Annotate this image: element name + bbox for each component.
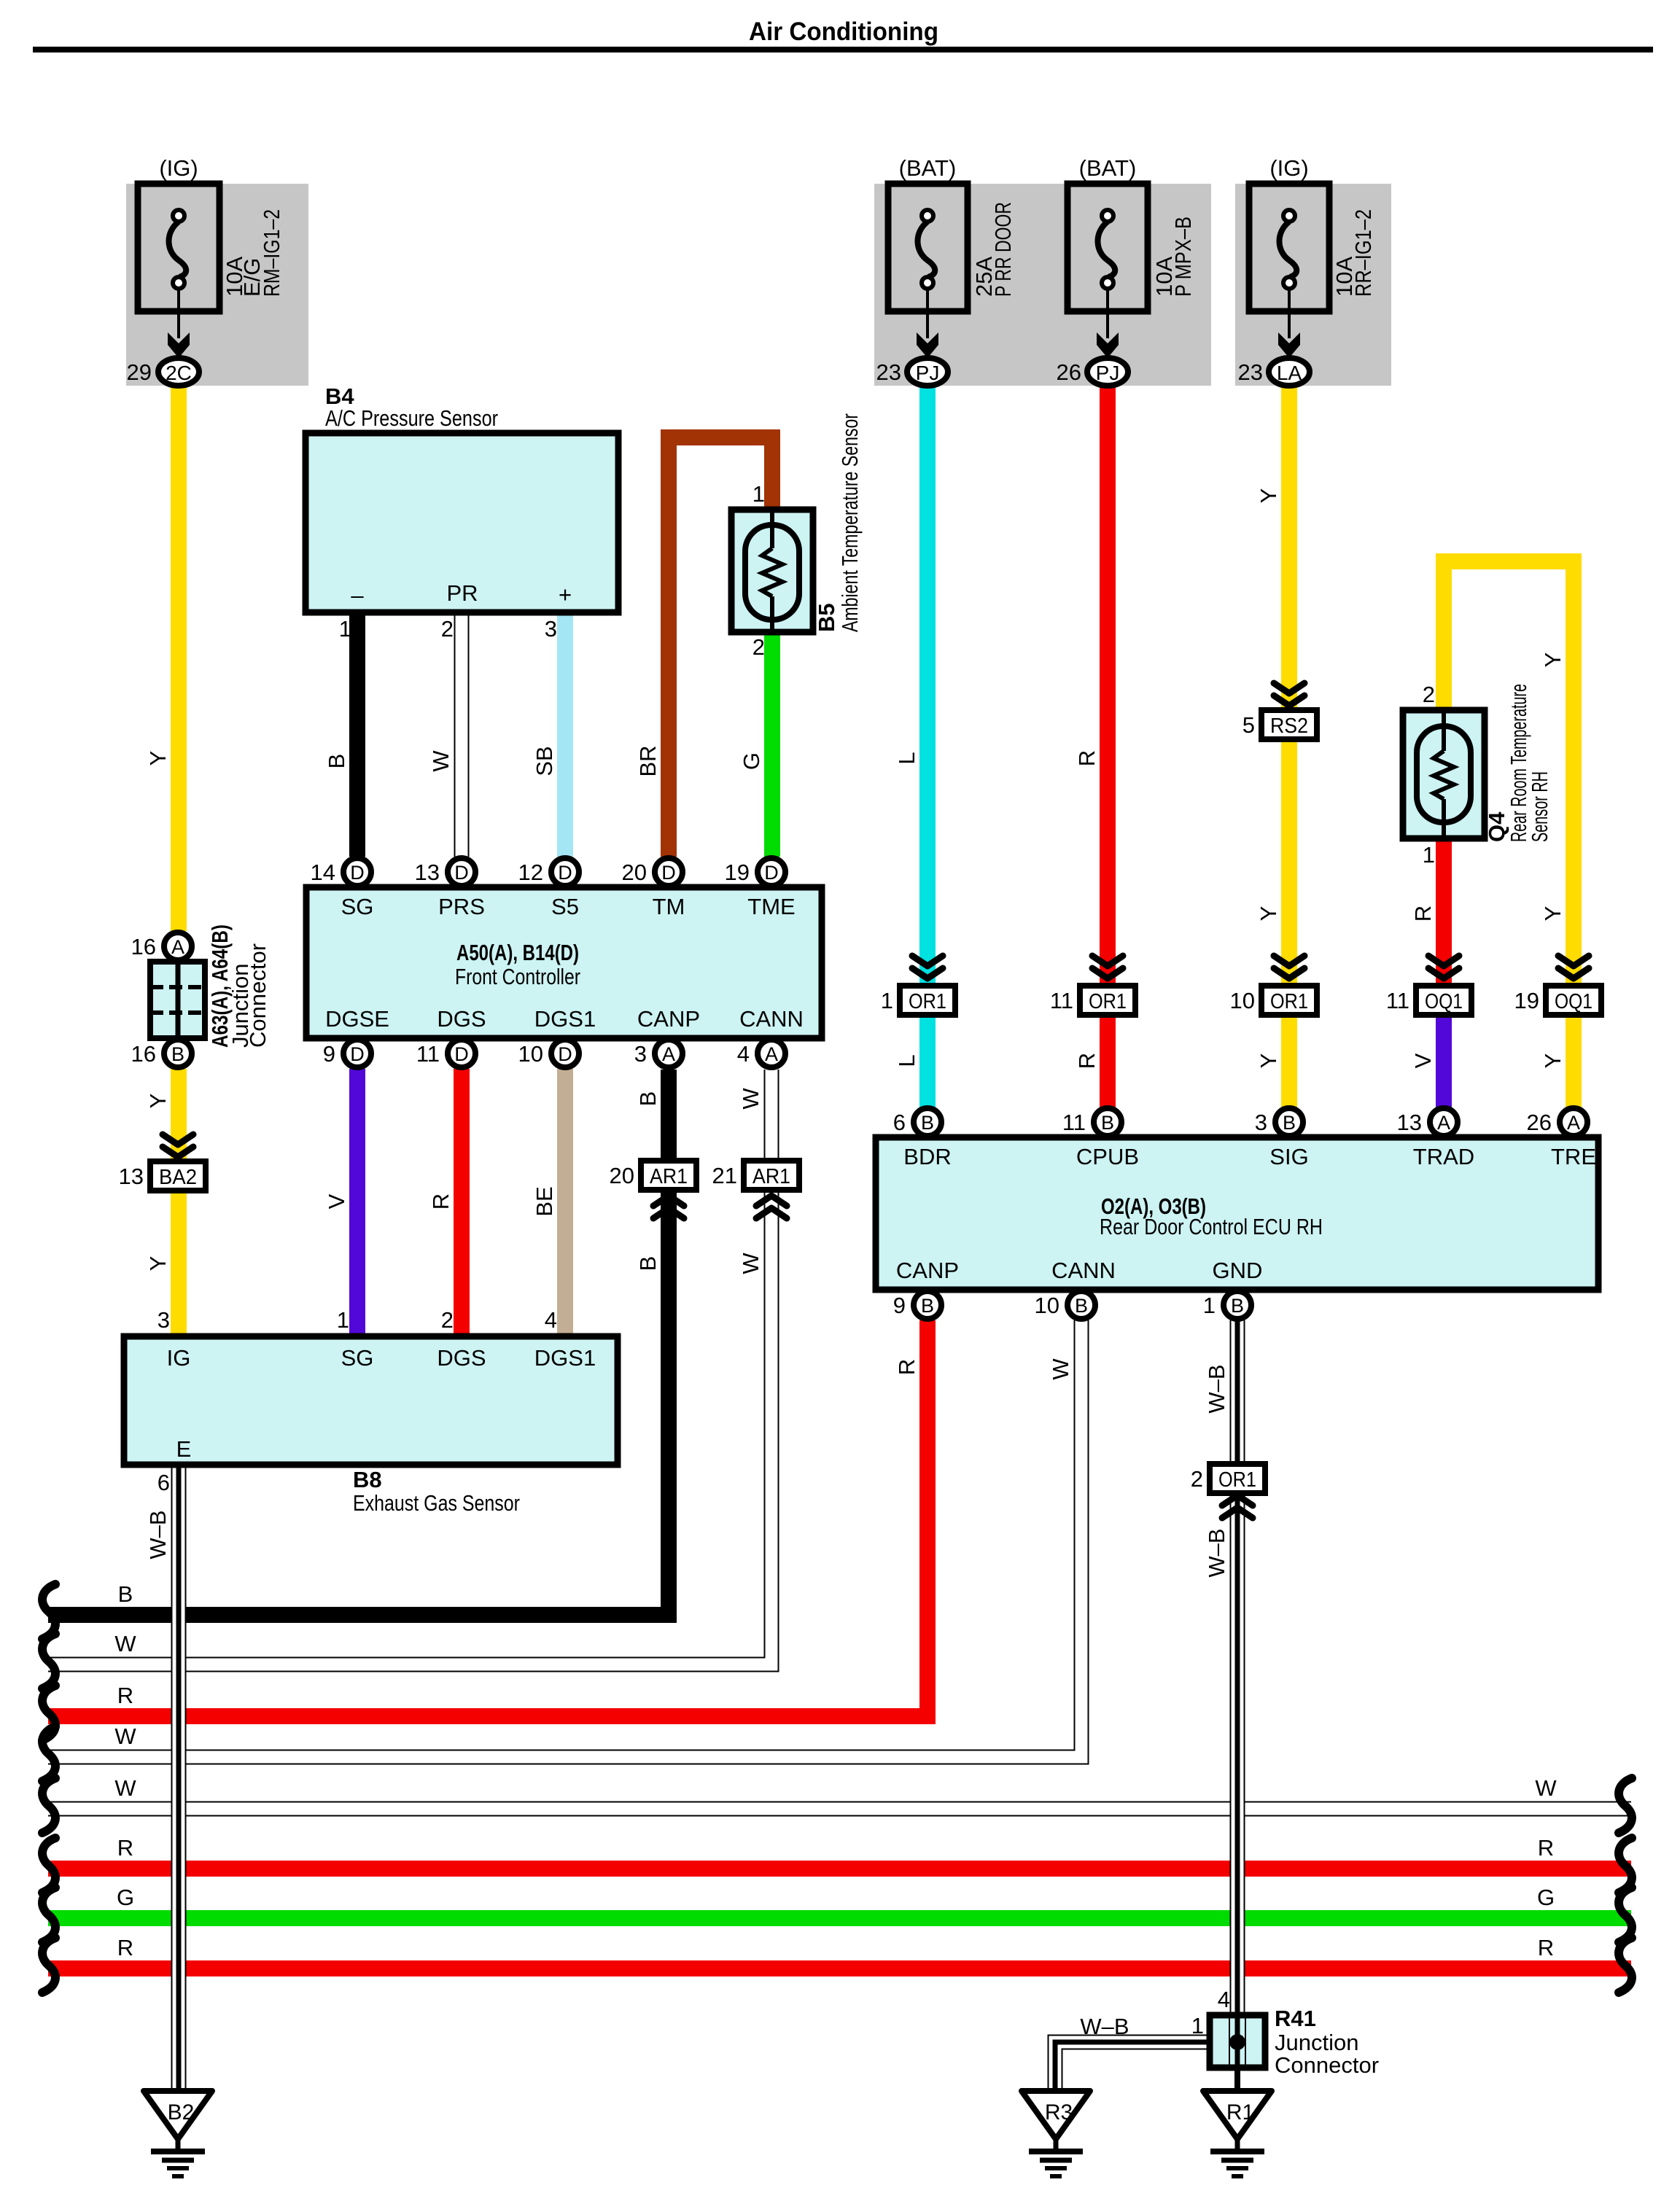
svg-text:P RR DOOR: P RR DOOR [990, 202, 1016, 297]
svg-text:16: 16 [131, 1041, 156, 1067]
svg-text:PRS: PRS [438, 894, 485, 919]
pin 11 B CPUB [1094, 1108, 1121, 1136]
connector OR1 pin 10 [1261, 986, 1317, 1015]
svg-text:26: 26 [1527, 1110, 1552, 1135]
pin 9 B CANP [914, 1291, 941, 1319]
bus break curls left [42, 1584, 55, 1639]
svg-text:Rear Door Control ECU RH: Rear Door Control ECU RH [1100, 1214, 1323, 1239]
svg-text:D: D [350, 862, 365, 884]
node R41 junction dot [1229, 2034, 1245, 2050]
component O2(A) O3(B) Rear Door Control ECU RH [876, 1137, 1598, 1290]
svg-text:B: B [921, 1112, 934, 1134]
svg-text:R: R [117, 1835, 133, 1861]
wire R bus full width lower [48, 1960, 1631, 1976]
svg-text:R: R [1410, 905, 1436, 922]
connector AR1 pin 20 chevrons [653, 1196, 684, 1206]
svg-text:R: R [1074, 1053, 1100, 1069]
svg-text:R: R [894, 1359, 919, 1375]
connector OR1 pin 2 chevrons [1222, 1495, 1253, 1506]
pin 10 B CANN [1067, 1291, 1095, 1319]
wire BE DGS1 pin 10 to B8 pin 4 [557, 1069, 573, 1336]
wire B bus (CANP via AR1 to splice) [48, 1070, 669, 1615]
wire B from B4 - to SG pin 14 [349, 612, 365, 857]
wire G bus full width [48, 1910, 1631, 1926]
svg-text:DGS1: DGS1 [534, 1345, 596, 1371]
svg-text:19: 19 [725, 860, 750, 885]
wire L from fuse PJ to BDR pin 6 [919, 386, 936, 1107]
svg-text:G: G [739, 752, 764, 770]
svg-text:L: L [894, 752, 919, 764]
svg-text:A: A [1567, 1112, 1580, 1134]
svg-text:3: 3 [545, 616, 557, 642]
svg-text:S5: S5 [551, 894, 579, 919]
svg-text:4: 4 [737, 1041, 750, 1067]
pin 26 A TRE [1560, 1108, 1587, 1136]
pin 14 D SG [343, 858, 371, 886]
svg-text:BR: BR [635, 745, 661, 776]
svg-text:CPUB: CPUB [1076, 1144, 1139, 1169]
svg-text:W: W [738, 1253, 763, 1274]
svg-text:3: 3 [157, 1307, 170, 1333]
fuse panel backdrop BAT [874, 184, 1211, 386]
svg-text:V: V [1410, 1053, 1436, 1068]
svg-text:11: 11 [416, 1041, 440, 1067]
svg-text:LA: LA [1277, 362, 1302, 384]
svg-text:B5: B5 [814, 603, 839, 632]
connector AR1 pin 20 (B wire) [641, 1161, 696, 1190]
svg-text:W: W [1535, 1775, 1557, 1801]
svg-text:PJ: PJ [1096, 362, 1120, 384]
svg-text:1: 1 [1203, 1293, 1216, 1318]
svg-text:DGS: DGS [437, 1006, 486, 1032]
svg-text:Y: Y [1256, 488, 1281, 504]
svg-text:1: 1 [1191, 2013, 1204, 2038]
svg-text:1: 1 [1423, 842, 1435, 868]
component Q4 Rear Room Temperature Sensor RH (thermistor) [1403, 710, 1485, 838]
svg-text:A: A [171, 936, 184, 958]
svg-text:CANN: CANN [1051, 1258, 1116, 1283]
svg-text:10: 10 [518, 1041, 543, 1067]
svg-text:RR–IG1–2: RR–IG1–2 [1350, 209, 1376, 297]
wire R from Q4 pin 1 to OQ1 [1436, 838, 1452, 1000]
svg-text:OR1: OR1 [1218, 1468, 1256, 1492]
wire R bus (CANP rear ECU to splice) [48, 1320, 927, 1716]
svg-text:GND: GND [1213, 1258, 1263, 1283]
svg-text:Ambient Temperature Sensor: Ambient Temperature Sensor [837, 413, 863, 632]
connector OQ1 pin 11 chevrons [1428, 956, 1459, 966]
svg-text:(BAT): (BAT) [899, 155, 957, 181]
svg-text:R: R [428, 1193, 454, 1210]
svg-text:B: B [635, 1256, 661, 1271]
svg-text:20: 20 [622, 860, 647, 885]
svg-text:W: W [114, 1631, 136, 1656]
svg-text:OR1: OR1 [1270, 990, 1308, 1013]
svg-text:29: 29 [127, 359, 152, 385]
svg-text:1: 1 [337, 1307, 349, 1333]
svg-text:4: 4 [545, 1307, 557, 1333]
pin 9 D DGSE [343, 1040, 371, 1067]
svg-text:Exhaust Gas Sensor: Exhaust Gas Sensor [353, 1490, 520, 1516]
svg-text:B8: B8 [353, 1467, 382, 1492]
fuse 10A P MPX-B [1067, 184, 1148, 311]
svg-text:–: – [351, 583, 364, 608]
svg-text:6: 6 [157, 1470, 170, 1495]
svg-text:2: 2 [441, 1307, 454, 1333]
fuse 10A E/G RM-IG1-2 [138, 184, 219, 311]
svg-text:A: A [765, 1043, 778, 1065]
svg-text:B: B [171, 1043, 184, 1065]
svg-text:1: 1 [752, 481, 765, 507]
junction connector R41 [1210, 2015, 1265, 2068]
svg-text:R1: R1 [1226, 2100, 1254, 2124]
connector OR1 pin 1 chevrons [912, 956, 943, 966]
component B5 Ambient Temperature Sensor (thermistor) [731, 510, 813, 632]
svg-text:11: 11 [1386, 988, 1409, 1013]
svg-text:A50(A), B14(D): A50(A), B14(D) [456, 940, 579, 965]
svg-text:TRAD: TRAD [1413, 1144, 1474, 1169]
svg-text:5: 5 [1242, 712, 1255, 738]
wire R from fuse PJ to CPUB pin 11 [1100, 386, 1116, 1107]
wire Y loop Q4 pin 2 via OQ1 to TRE pin 26 [1444, 561, 1574, 1107]
svg-text:(IG): (IG) [159, 155, 198, 181]
svg-text:2: 2 [441, 616, 454, 642]
svg-text:DGSE: DGSE [325, 1006, 389, 1032]
svg-text:W–B: W–B [145, 1510, 171, 1559]
svg-text:G: G [117, 1885, 134, 1910]
ground R1 [1203, 2091, 1272, 2139]
component B8 Exhaust Gas Sensor [124, 1336, 618, 1465]
connector 2C [158, 358, 199, 386]
svg-text:12: 12 [518, 860, 543, 885]
pin 4 A CANN [758, 1040, 785, 1067]
ground B2 [144, 2091, 212, 2139]
wire W bus (CANN via AR1 to splice) [48, 1070, 771, 1664]
svg-text:OQ1: OQ1 [1555, 990, 1592, 1013]
svg-text:2C: 2C [166, 362, 192, 384]
fuse panel backdrop IG right [1235, 184, 1391, 386]
component B4 A/C Pressure Sensor [306, 433, 618, 612]
svg-text:RS2: RS2 [1270, 714, 1308, 738]
svg-text:2: 2 [1423, 682, 1435, 707]
pin 16 B junction [164, 1040, 192, 1067]
svg-text:3: 3 [634, 1041, 647, 1067]
svg-text:19: 19 [1514, 988, 1539, 1013]
pin 3 B SIG [1275, 1108, 1303, 1136]
svg-text:OQ1: OQ1 [1425, 990, 1463, 1013]
svg-text:9: 9 [893, 1293, 906, 1318]
svg-text:Y: Y [1256, 1053, 1281, 1069]
connector PJ [907, 358, 948, 386]
svg-text:1: 1 [339, 616, 351, 642]
connector OR1 pin 11 [1080, 986, 1135, 1015]
svg-text:R: R [117, 1683, 133, 1708]
svg-text:4: 4 [1218, 1987, 1230, 2012]
wire R DGS pin 11 to B8 pin 2 [454, 1069, 470, 1336]
fuse 10A RR-IG1-2 [1249, 184, 1329, 311]
connector LA [1269, 358, 1310, 386]
svg-text:B: B [921, 1295, 934, 1317]
svg-text:D: D [661, 862, 676, 884]
svg-text:W: W [1048, 1358, 1073, 1380]
svg-text:P MPX–B: P MPX–B [1170, 217, 1196, 297]
svg-text:B: B [1231, 1295, 1244, 1317]
svg-text:11: 11 [1062, 1110, 1086, 1135]
wire Y from fuse 2C to junction A [171, 386, 187, 931]
svg-text:(IG): (IG) [1269, 155, 1308, 181]
svg-text:AR1: AR1 [752, 1165, 790, 1188]
ground R3 [1022, 2091, 1090, 2139]
svg-text:23: 23 [1238, 359, 1263, 385]
junction connector A63(A) A64(B) [150, 962, 205, 1038]
pin 6 B BDR [914, 1108, 941, 1136]
wire W-B from B8 E to ground B2 [171, 1465, 187, 2091]
svg-text:Connector: Connector [1275, 2052, 1379, 2078]
svg-text:D: D [764, 862, 779, 884]
svg-text:SG: SG [341, 894, 374, 919]
svg-text:G: G [1537, 1885, 1555, 1910]
svg-text:W: W [114, 1775, 136, 1801]
wire Y junction B to B8 IG [171, 1069, 187, 1336]
svg-text:11: 11 [1050, 988, 1073, 1013]
svg-text:3: 3 [1255, 1110, 1267, 1135]
pin 20 D TM [655, 858, 682, 886]
svg-text:10: 10 [1035, 1293, 1059, 1318]
connector OQ1 pin 11 [1416, 986, 1471, 1015]
svg-text:2: 2 [752, 634, 765, 660]
svg-text:Y: Y [145, 1256, 171, 1271]
connector AR1 pin 21 (W wire) [744, 1161, 799, 1190]
svg-text:20: 20 [610, 1163, 634, 1188]
svg-text:CANP: CANP [637, 1006, 700, 1032]
wire W from B4 PR to PRS pin 13 [454, 612, 470, 857]
svg-text:23: 23 [876, 359, 901, 385]
svg-text:1: 1 [881, 988, 893, 1013]
svg-text:Sensor RH: Sensor RH [1527, 771, 1552, 842]
wire G from B5 pin 2 to TME pin 19 [764, 632, 780, 857]
connector OR1 pin 11 chevrons [1092, 956, 1123, 966]
svg-text:R41: R41 [1275, 2006, 1316, 2031]
svg-text:D: D [558, 862, 572, 884]
wire W-B from R41 pin 1 to ground R3 [1055, 2042, 1210, 2091]
svg-text:DGS: DGS [437, 1345, 486, 1371]
svg-text:16: 16 [131, 934, 156, 959]
wire SB from B4 + to S5 pin 12 [557, 612, 573, 857]
connector OQ1 pin 19 chevrons [1558, 956, 1589, 966]
svg-text:CANP: CANP [896, 1258, 959, 1283]
svg-text:R: R [1074, 750, 1100, 766]
svg-text:10: 10 [1230, 988, 1255, 1013]
svg-text:14: 14 [311, 860, 335, 885]
svg-text:B: B [635, 1091, 661, 1107]
wire Y from fuse LA via RS2 to SIG pin 3 [1281, 386, 1297, 1107]
svg-text:R: R [1538, 1935, 1554, 1960]
svg-text:A/C Pressure Sensor: A/C Pressure Sensor [325, 405, 498, 431]
svg-text:PR: PR [446, 580, 478, 606]
pin 3 A CANP [655, 1040, 682, 1067]
svg-text:A: A [1437, 1112, 1450, 1134]
connector AR1 pin 21 chevrons [756, 1196, 787, 1206]
svg-text:IG: IG [167, 1345, 191, 1371]
svg-text:W: W [114, 1724, 136, 1749]
svg-text:A: A [662, 1043, 675, 1065]
connector RS2 pin 5 [1261, 710, 1317, 739]
svg-text:(BAT): (BAT) [1079, 155, 1137, 181]
svg-text:Y: Y [1540, 906, 1566, 922]
svg-text:B: B [324, 754, 349, 769]
svg-text:B: B [118, 1581, 133, 1607]
svg-text:D: D [558, 1043, 572, 1065]
svg-text:W–B: W–B [1204, 1528, 1229, 1577]
pin 13 A TRAD [1430, 1108, 1458, 1136]
svg-text:26: 26 [1057, 359, 1081, 385]
svg-text:B: B [1283, 1112, 1296, 1134]
svg-text:Junction: Junction [1275, 2030, 1358, 2055]
svg-text:PJ: PJ [916, 362, 940, 384]
svg-text:6: 6 [893, 1110, 906, 1135]
svg-text:Connector: Connector [245, 943, 271, 1048]
svg-text:BDR: BDR [903, 1144, 951, 1169]
svg-text:SG: SG [341, 1345, 374, 1371]
svg-text:9: 9 [323, 1041, 335, 1067]
svg-text:L: L [894, 1054, 919, 1067]
svg-text:Front Controller: Front Controller [455, 964, 580, 989]
pin 1 B GND [1224, 1291, 1251, 1319]
svg-text:W: W [428, 750, 454, 772]
svg-text:SIG: SIG [1269, 1144, 1308, 1169]
svg-text:Y: Y [145, 751, 171, 766]
bus break curls right [1619, 1778, 1632, 1833]
pin 16 A junction [164, 932, 192, 960]
svg-text:BA2: BA2 [159, 1166, 197, 1189]
svg-text:13: 13 [415, 860, 440, 885]
svg-text:SB: SB [532, 746, 557, 776]
svg-text:OR1: OR1 [909, 990, 946, 1013]
wire R bus full width [48, 1861, 1631, 1877]
svg-text:D: D [350, 1043, 365, 1065]
wire W-B from GND pin 1 via OR1 to R41 [1230, 1320, 1245, 2015]
svg-text:2: 2 [1191, 1466, 1203, 1492]
svg-text:AR1: AR1 [650, 1165, 688, 1188]
svg-text:TME: TME [747, 894, 795, 919]
pin 11 D DGS [448, 1040, 475, 1067]
svg-text:D: D [454, 862, 469, 884]
connector OQ1 pin 19 [1546, 986, 1601, 1015]
svg-text:Y: Y [145, 1094, 171, 1109]
svg-text:E: E [176, 1436, 192, 1462]
svg-text:+: + [559, 582, 572, 607]
connector PJ [1087, 358, 1128, 386]
wire W-B R41 to ground R1 [1234, 2068, 1240, 2091]
svg-text:TRE: TRE [1551, 1144, 1596, 1169]
svg-text:OR1: OR1 [1089, 990, 1127, 1013]
svg-text:13: 13 [1397, 1110, 1422, 1135]
svg-text:W–B: W–B [1080, 2014, 1129, 2039]
svg-text:W–B: W–B [1204, 1364, 1229, 1413]
wire W bus (CANN rear ECU to splice) [48, 1320, 1081, 1757]
svg-text:Y: Y [1256, 906, 1281, 922]
svg-text:21: 21 [712, 1163, 737, 1188]
svg-text:R: R [117, 1935, 133, 1960]
svg-text:Air Conditioning: Air Conditioning [749, 17, 938, 46]
fuse 25A P RR DOOR [888, 184, 968, 311]
svg-text:V: V [324, 1193, 349, 1209]
svg-text:CANN: CANN [739, 1006, 804, 1032]
wire BR loop TM pin 20 to B5 pin 1 [669, 437, 772, 857]
svg-text:BE: BE [532, 1186, 557, 1216]
svg-text:R3: R3 [1045, 2100, 1073, 2124]
connector OR1 pin 2 (W-B) [1210, 1464, 1265, 1493]
svg-text:TM: TM [653, 894, 685, 919]
connector OR1 pin 1 [900, 986, 955, 1015]
pin 13 D PRS [448, 858, 475, 886]
svg-text:13: 13 [119, 1164, 144, 1189]
svg-text:B2: B2 [168, 2100, 195, 2124]
svg-text:R: R [1538, 1835, 1554, 1861]
wire W bus full width [48, 1802, 1631, 1817]
svg-text:D: D [454, 1043, 469, 1065]
wire V DGSE pin 9 to B8 pin 1 [349, 1069, 365, 1336]
fuse panel backdrop left [126, 184, 308, 386]
connector RS2 chevrons [1274, 683, 1304, 693]
connector BA2 on IG yellow wire [150, 1161, 206, 1191]
pin 10 D DGS1 [551, 1040, 579, 1067]
svg-text:DGS1: DGS1 [534, 1006, 596, 1032]
svg-text:Y: Y [1540, 1053, 1566, 1069]
pin 12 D S5 [551, 858, 579, 886]
connector OR1 pin 10 chevrons [1274, 956, 1304, 966]
svg-text:W: W [738, 1088, 763, 1110]
svg-text:Y: Y [1540, 653, 1566, 668]
component A50(A) B14(D) Front Controller [306, 887, 822, 1038]
svg-text:B: B [1075, 1295, 1088, 1317]
svg-text:B: B [1101, 1112, 1114, 1134]
connector BA2 chevrons [163, 1134, 193, 1145]
svg-text:RM–IG1–2: RM–IG1–2 [259, 209, 284, 297]
wire V from OQ1 to TRAD pin 13 [1436, 1000, 1452, 1107]
pin 19 D TME [758, 858, 785, 886]
